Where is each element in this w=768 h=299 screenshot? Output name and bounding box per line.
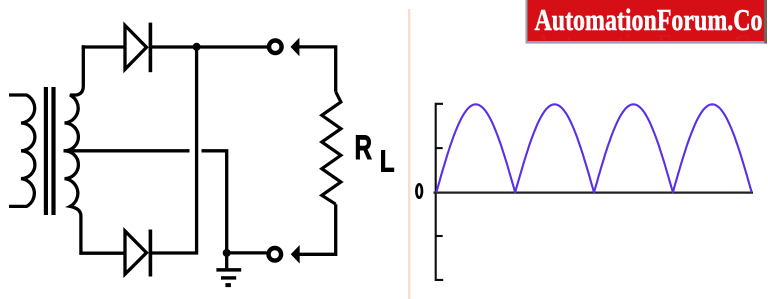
wire junction vertical down to diode D2 output xyxy=(152,47,197,253)
wire diode D1 to output terminal xyxy=(152,45,267,48)
ground symbol bar 3 xyxy=(225,283,231,287)
svg-text:L: L xyxy=(380,144,395,179)
waveform x-axis xyxy=(434,191,754,193)
ground symbol bar 1 xyxy=(216,268,241,272)
diode D1 xyxy=(125,25,147,69)
arrowhead at bottom terminal xyxy=(291,245,300,264)
logo right dark border xyxy=(764,0,767,44)
logo background border xyxy=(526,0,768,44)
svg-text:AutomationForum.Co: AutomationForum.Co xyxy=(535,3,763,37)
ground symbol bar 2 xyxy=(221,276,236,279)
wire ground junction to bottom terminal xyxy=(227,251,267,254)
waveform y-axis tick lower xyxy=(436,235,443,237)
logo red box xyxy=(528,0,765,41)
pink divider line xyxy=(408,9,410,299)
ground symbol stem xyxy=(225,253,228,269)
label 0 at origin xyxy=(416,184,422,197)
wire resistor to bottom arrow tail xyxy=(298,204,336,254)
node junction dot at ground xyxy=(223,249,231,257)
full-wave rectified sine curve xyxy=(436,104,751,192)
wire top arrow tail to resistor xyxy=(298,47,336,92)
node junction dot at diode outputs xyxy=(193,43,201,51)
transformer T1 secondary winding xyxy=(65,45,126,253)
top output terminal circle xyxy=(269,41,282,54)
diode D2 cathode bar xyxy=(149,230,153,277)
wire top from secondary to diode D1 xyxy=(82,45,125,48)
diode D1 cathode bar xyxy=(149,23,153,73)
transformer T1 primary winding xyxy=(9,95,35,206)
waveform y-axis tick upper xyxy=(436,147,443,149)
center tap wire right segment to ground corner xyxy=(202,151,227,253)
waveform y-axis with end caps xyxy=(436,104,444,280)
arrowhead at top terminal xyxy=(291,38,300,57)
bottom output terminal circle xyxy=(269,248,282,261)
diode D2 xyxy=(125,231,147,274)
resistor RL zigzag xyxy=(322,92,341,204)
svg-text:R: R xyxy=(355,129,373,167)
center tap wire left segment xyxy=(64,149,190,152)
transformer T1 core xyxy=(46,87,54,215)
